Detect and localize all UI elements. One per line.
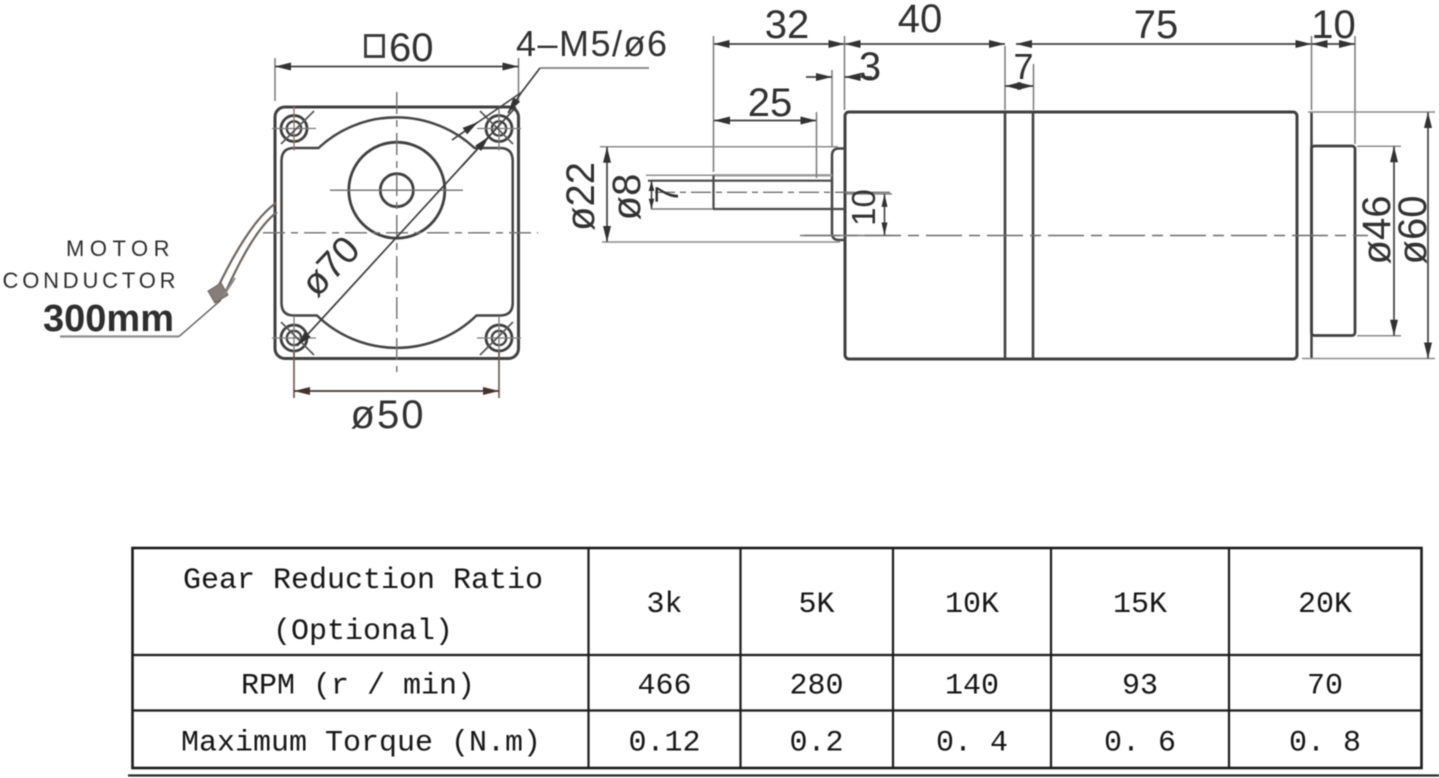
svg-text:70: 70 xyxy=(1307,670,1343,704)
svg-text:10K: 10K xyxy=(945,588,999,622)
svg-text:25: 25 xyxy=(748,81,793,125)
dimension 10 (rear cap): dimension line xyxy=(1312,43,1356,45)
svg-text:Gear Reduction Ratio: Gear Reduction Ratio xyxy=(183,564,543,598)
svg-text:RPM (r / min): RPM (r / min) xyxy=(241,670,475,704)
label 4-M5 leader arrow to top-right hole xyxy=(508,68,540,113)
label 4-M5 underline xyxy=(540,67,649,69)
svg-text:0.12: 0.12 xyxy=(628,727,700,761)
corner chamfer line bottom-right xyxy=(480,322,513,355)
side view: flange line right xyxy=(1032,112,1035,359)
dimension square-60: label xyxy=(366,36,384,57)
svg-text:300mm: 300mm xyxy=(43,298,174,340)
side view: shaft centerline xyxy=(655,191,890,193)
table row line 2 xyxy=(133,709,1422,711)
table row line 1 xyxy=(133,654,1422,656)
front view: horizontal centerline xyxy=(263,232,538,234)
side view: front bearing boss (diam22 x 3) xyxy=(832,149,845,241)
svg-text:(Optional): (Optional) xyxy=(273,615,453,649)
svg-text:10: 10 xyxy=(1311,3,1356,47)
svg-text:ø50: ø50 xyxy=(351,393,426,437)
dimension 10 (eccentric offset): dimension line xyxy=(884,194,886,236)
svg-text:0.2: 0.2 xyxy=(789,727,843,761)
table column line 2 xyxy=(739,548,741,768)
svg-text:60: 60 xyxy=(389,26,434,70)
svg-text:93: 93 xyxy=(1122,670,1158,704)
wire end tick xyxy=(224,278,235,295)
svg-text:466: 466 xyxy=(637,670,691,704)
mounting hole top-left xyxy=(272,107,316,151)
side view: shaft top edge xyxy=(713,174,832,176)
svg-text:7: 7 xyxy=(649,186,685,204)
svg-text:7: 7 xyxy=(1013,46,1033,87)
corner chamfer line top-left xyxy=(281,111,314,144)
dimension 10 (rear cap): extension lines xyxy=(1311,36,1313,110)
300mm leader line to wire end xyxy=(179,300,221,337)
dimension 7 (flange): extension lines xyxy=(1004,46,1006,110)
svg-text:ø46: ø46 xyxy=(1355,196,1399,265)
svg-text:4–M5/ø6: 4–M5/ø6 xyxy=(516,23,669,64)
side view: rear end ring xyxy=(1310,113,1313,359)
svg-text:75: 75 xyxy=(1134,3,1179,47)
svg-text:ø70: ø70 xyxy=(293,229,369,305)
corner chamfer line top-right xyxy=(480,111,513,144)
dimension 3: left arrow xyxy=(806,76,832,78)
front view: output shaft circle (diam 8) xyxy=(380,174,413,207)
table outer border xyxy=(133,548,1422,768)
dimension 7 (shaft flat): dimension line xyxy=(651,181,653,209)
side view: shaft bottom extension xyxy=(651,208,713,210)
svg-text:0. 4: 0. 4 xyxy=(936,727,1008,761)
dimension 25: extension line at flat end xyxy=(816,112,818,178)
dimension diam-50: dimension line with arrows xyxy=(294,390,499,392)
svg-text:3k: 3k xyxy=(646,588,682,622)
bottom rule line xyxy=(128,774,1439,776)
wire 2 xyxy=(226,212,277,291)
dimension square-60: dimension line with arrows xyxy=(275,66,519,68)
dimension 40: extension line at gearbox face xyxy=(844,36,846,110)
dimension 10 (eccentric offset): bottom reference line xyxy=(800,235,892,237)
svg-text:MOTOR: MOTOR xyxy=(66,236,175,261)
wire end connector xyxy=(208,283,228,303)
side view: shaft bottom edge xyxy=(713,208,845,210)
dimension 32: dimension line xyxy=(714,43,845,45)
front view: gearbox outer square body xyxy=(275,107,519,359)
dimension 3: right arrow xyxy=(845,76,873,78)
mounting hole bottom-left xyxy=(272,316,316,360)
4-M5 leader extension through hole with second arrow xyxy=(452,92,522,140)
svg-text:5K: 5K xyxy=(798,588,834,622)
svg-text:3: 3 xyxy=(859,45,881,89)
300mm underline xyxy=(60,335,179,337)
dimension 40: dimension line xyxy=(845,43,1006,45)
table column line 5 xyxy=(1228,548,1230,768)
side view: shaft end face xyxy=(712,175,714,209)
side view: motor+gearbox body xyxy=(845,112,1297,359)
svg-text:40: 40 xyxy=(898,0,943,41)
svg-text:0. 6: 0. 6 xyxy=(1104,727,1176,761)
dimension diam60: extension lines xyxy=(1308,111,1435,113)
dimension diam46: dimension line xyxy=(1393,146,1395,335)
svg-text:20K: 20K xyxy=(1298,588,1352,622)
side view: rear cap (diam 46) xyxy=(1312,146,1356,336)
dimension diam-70 diagonal line through mounting holes xyxy=(297,107,516,346)
wire 1 xyxy=(219,203,276,285)
dimension 3 (boss): extension line xyxy=(831,70,833,146)
svg-text:CONDUCTOR: CONDUCTOR xyxy=(3,268,180,293)
svg-text:0. 8: 0. 8 xyxy=(1289,727,1361,761)
table column line 1 xyxy=(587,548,589,768)
side view: flange line left xyxy=(1004,112,1007,359)
dimension diam22: dimension line xyxy=(606,147,608,242)
dimension 25: dimension line xyxy=(714,120,817,122)
mounting hole bottom-right xyxy=(477,316,521,360)
corner chamfer line bottom-left xyxy=(281,322,314,355)
dimension 7 (flange): dimension line xyxy=(1005,85,1034,87)
svg-text:32: 32 xyxy=(765,3,810,47)
dimension square-60: extension lines xyxy=(274,58,276,101)
dimension diam22: extension lines xyxy=(600,146,838,148)
svg-text:Maximum Torque (N.m): Maximum Torque (N.m) xyxy=(181,727,541,761)
dimension diam46: extension lines xyxy=(1357,145,1401,147)
svg-text:10: 10 xyxy=(845,189,882,226)
table column line 3 xyxy=(892,548,894,768)
side view: shaft flat (D-cut) line xyxy=(648,180,832,182)
dimension 32: extension line at shaft tip xyxy=(713,36,715,172)
side view: body centerline xyxy=(804,235,1368,237)
svg-text:ø8: ø8 xyxy=(605,174,649,221)
dimension 75: dimension line xyxy=(1016,43,1312,45)
dimension diam-50: extension lines xyxy=(293,352,295,398)
svg-text:280: 280 xyxy=(789,670,843,704)
svg-text:140: 140 xyxy=(945,670,999,704)
front view: vertical centerline xyxy=(396,92,398,372)
mounting hole top-right xyxy=(477,107,521,151)
svg-text:15K: 15K xyxy=(1113,588,1167,622)
front view: inner face plate outline clipped by motor circle xyxy=(282,117,513,348)
table column line 4 xyxy=(1050,548,1052,768)
svg-text:ø22: ø22 xyxy=(559,162,603,231)
front view: shaft horizontal centerline xyxy=(330,189,463,191)
side view: shaft top extension line xyxy=(646,174,713,176)
front view: output shaft boss circle (diam 22) xyxy=(349,142,445,238)
dimension 10 (eccentric offset): top reference line xyxy=(846,193,892,195)
dimension diam60: dimension line xyxy=(1427,112,1429,359)
